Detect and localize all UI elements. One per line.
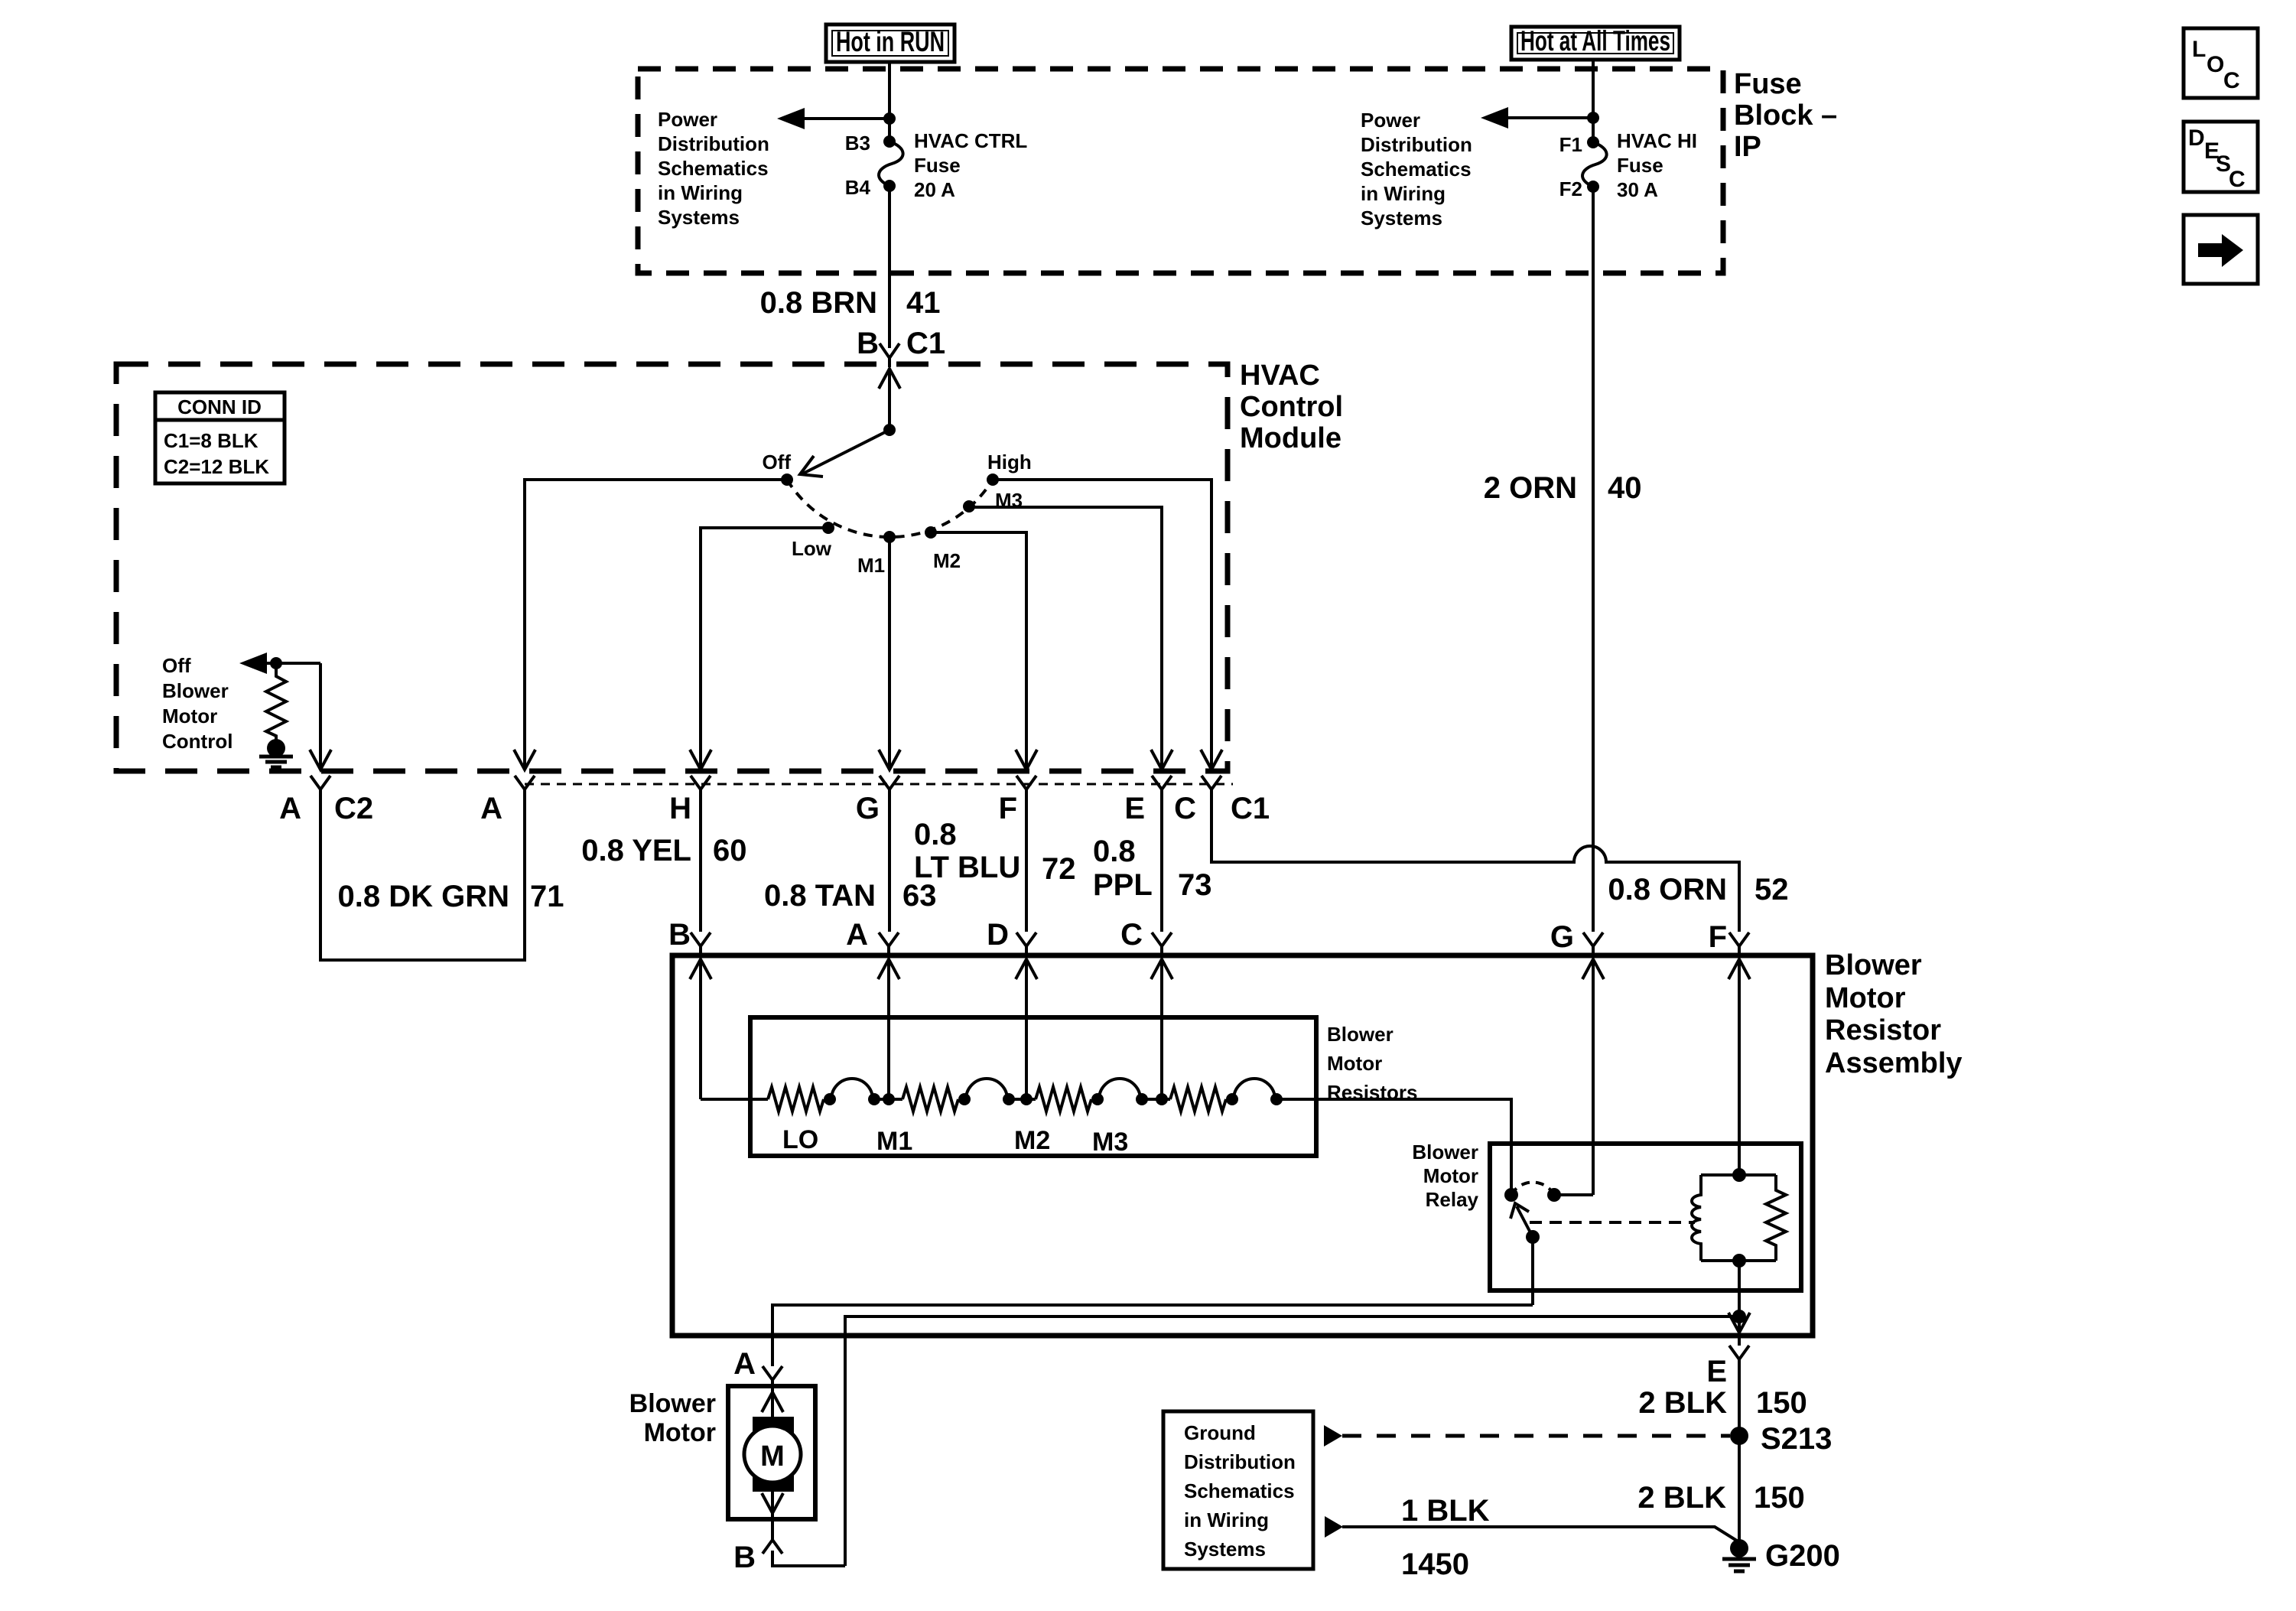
svg-text:41: 41: [906, 286, 941, 320]
svg-text:150: 150: [1756, 1386, 1807, 1420]
svg-text:Motor: Motor: [1327, 1052, 1382, 1075]
svg-text:Fuse: Fuse: [1617, 154, 1663, 177]
svg-text:72: 72: [1042, 852, 1076, 886]
svg-text:A: A: [846, 918, 868, 952]
svg-text:CONN ID: CONN ID: [177, 395, 262, 418]
svg-text:Module: Module: [1240, 422, 1342, 454]
svg-text:150: 150: [1754, 1481, 1805, 1515]
svg-text:Blower: Blower: [1412, 1141, 1478, 1163]
svg-text:C1: C1: [1231, 792, 1270, 825]
svg-text:D: D: [2188, 125, 2205, 151]
svg-text:40: 40: [1608, 471, 1642, 505]
svg-text:0.8 DK GRN: 0.8 DK GRN: [338, 880, 510, 913]
svg-text:High: High: [987, 451, 1032, 474]
svg-text:Power: Power: [1361, 109, 1420, 132]
svg-text:Control: Control: [162, 730, 233, 753]
svg-text:Control: Control: [1240, 391, 1343, 423]
svg-text:F: F: [1709, 920, 1727, 954]
svg-text:D: D: [987, 918, 1009, 952]
svg-text:C1: C1: [906, 327, 945, 360]
svg-text:in Wiring: in Wiring: [1184, 1508, 1269, 1531]
svg-text:Distribution: Distribution: [1184, 1450, 1296, 1473]
svg-text:O: O: [2207, 52, 2224, 77]
svg-text:0.8 YEL: 0.8 YEL: [581, 834, 691, 867]
svg-text:Power: Power: [658, 108, 717, 131]
svg-text:C: C: [1174, 792, 1196, 825]
svg-text:A: A: [480, 792, 502, 825]
svg-text:S213: S213: [1761, 1422, 1832, 1456]
svg-text:F2: F2: [1559, 177, 1582, 200]
svg-text:Schematics: Schematics: [658, 157, 769, 180]
svg-text:Assembly: Assembly: [1825, 1047, 1963, 1079]
svg-text:0.8: 0.8: [914, 818, 957, 851]
svg-text:1450: 1450: [1401, 1548, 1469, 1581]
svg-text:Schematics: Schematics: [1361, 158, 1472, 181]
svg-text:A: A: [279, 792, 301, 825]
svg-text:G: G: [1550, 920, 1574, 954]
svg-text:E: E: [1124, 792, 1145, 825]
svg-text:B: B: [857, 327, 879, 360]
svg-text:1 BLK: 1 BLK: [1401, 1494, 1490, 1528]
svg-text:20 A: 20 A: [914, 178, 955, 201]
svg-text:C: C: [1120, 918, 1143, 952]
svg-text:F1: F1: [1559, 133, 1582, 156]
svg-text:HVAC CTRL: HVAC CTRL: [914, 129, 1027, 152]
svg-text:Off: Off: [762, 451, 791, 474]
svg-text:L: L: [2192, 37, 2206, 62]
svg-text:in Wiring: in Wiring: [658, 181, 743, 204]
svg-text:A: A: [733, 1347, 756, 1381]
svg-text:Blower: Blower: [1825, 949, 1922, 981]
svg-text:B: B: [733, 1541, 756, 1574]
svg-text:H: H: [669, 792, 691, 825]
svg-text:Blower: Blower: [629, 1389, 716, 1418]
svg-text:Motor: Motor: [162, 705, 217, 727]
svg-text:M2: M2: [933, 549, 961, 572]
svg-text:E: E: [1706, 1355, 1727, 1388]
svg-text:M: M: [760, 1440, 785, 1473]
svg-text:LO: LO: [782, 1125, 818, 1154]
svg-text:Resistor: Resistor: [1825, 1014, 1941, 1046]
svg-text:30 A: 30 A: [1617, 178, 1658, 201]
svg-text:M1: M1: [876, 1127, 912, 1156]
svg-text:0.8 TAN: 0.8 TAN: [764, 879, 876, 913]
svg-text:0.8 ORN: 0.8 ORN: [1608, 873, 1727, 906]
svg-text:71: 71: [530, 880, 564, 913]
svg-text:Blower: Blower: [162, 679, 229, 702]
svg-text:60: 60: [713, 834, 747, 867]
svg-text:0.8 BRN: 0.8 BRN: [760, 286, 877, 320]
svg-text:2 ORN: 2 ORN: [1484, 471, 1577, 505]
svg-text:LT BLU: LT BLU: [914, 851, 1020, 884]
svg-text:C: C: [2223, 68, 2240, 93]
svg-text:Motor: Motor: [644, 1418, 716, 1447]
svg-text:HVAC: HVAC: [1240, 360, 1320, 392]
svg-text:Low: Low: [792, 537, 832, 560]
svg-text:Systems: Systems: [658, 206, 740, 229]
svg-text:Block –: Block –: [1734, 99, 1837, 132]
svg-text:Systems: Systems: [1361, 207, 1442, 229]
svg-text:Ground: Ground: [1184, 1421, 1256, 1444]
svg-text:Motor: Motor: [1825, 982, 1906, 1014]
svg-text:Distribution: Distribution: [1361, 133, 1472, 156]
svg-text:Off: Off: [162, 654, 191, 677]
svg-text:Relay: Relay: [1426, 1188, 1479, 1211]
svg-text:Blower: Blower: [1327, 1023, 1394, 1046]
svg-text:M3: M3: [1092, 1128, 1128, 1157]
svg-text:Distribution: Distribution: [658, 132, 769, 155]
svg-text:Fuse: Fuse: [914, 154, 961, 177]
svg-text:M1: M1: [857, 554, 885, 577]
svg-text:52: 52: [1755, 873, 1789, 906]
svg-text:G: G: [856, 792, 880, 825]
svg-text:PPL: PPL: [1093, 868, 1153, 902]
svg-text:2 BLK: 2 BLK: [1637, 1481, 1726, 1515]
svg-text:in Wiring: in Wiring: [1361, 182, 1446, 205]
svg-text:B: B: [668, 918, 691, 952]
svg-text:0.8: 0.8: [1093, 835, 1136, 868]
svg-text:C1=8 BLK: C1=8 BLK: [164, 429, 259, 452]
svg-text:C2: C2: [334, 792, 373, 825]
svg-text:IP: IP: [1734, 131, 1761, 163]
svg-text:G200: G200: [1765, 1539, 1840, 1573]
svg-text:B4: B4: [845, 176, 871, 199]
svg-text:73: 73: [1178, 868, 1212, 902]
svg-text:Hot in RUN: Hot in RUN: [836, 26, 945, 57]
svg-text:C: C: [2229, 167, 2246, 192]
svg-text:Motor: Motor: [1423, 1164, 1478, 1187]
svg-text:Systems: Systems: [1184, 1538, 1266, 1561]
svg-text:B3: B3: [845, 132, 870, 155]
svg-text:Hot at All Times: Hot at All Times: [1520, 25, 1670, 57]
svg-text:C2=12 BLK: C2=12 BLK: [164, 455, 269, 478]
svg-text:Schematics: Schematics: [1184, 1479, 1295, 1502]
svg-text:HVAC HI: HVAC HI: [1617, 129, 1697, 152]
svg-text:2 BLK: 2 BLK: [1638, 1386, 1727, 1420]
svg-text:Fuse: Fuse: [1734, 68, 1802, 100]
svg-text:M2: M2: [1014, 1126, 1050, 1155]
svg-text:F: F: [999, 792, 1017, 825]
